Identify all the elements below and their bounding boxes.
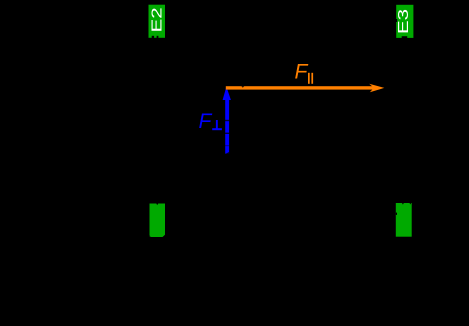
electrode plate E2 (top left green box) (148, 5, 165, 38)
svg-text:F: F (199, 110, 213, 133)
diagonal cut at blue arrow tail (225, 152, 229, 154)
dash gap on blue shaft 1 (225, 120, 229, 121)
notch on E3 left edge (396, 19, 397, 22)
svg-text:F: F (295, 60, 309, 83)
force arrow F_par (orange, horizontal) (226, 84, 384, 93)
label F_par (orange) (295, 60, 314, 84)
bottom left green electrode segment (150, 204, 166, 238)
svg-text:E3: E3 (395, 9, 412, 34)
dash gap on blue shaft 2 (225, 133, 229, 134)
notch on bottom-right box top edge 2 (410, 203, 412, 205)
notch on bottom-left box top edge (156, 204, 158, 206)
force arrow F_perp (blue, vertical) (223, 87, 231, 154)
notch on bottom-left box corner (163, 235, 166, 237)
notch on E2 bottom edge (152, 36, 154, 38)
dash gap on blue shaft 3 (225, 145, 229, 146)
bottom right green electrode segment (396, 203, 412, 237)
svg-text:E2: E2 (148, 7, 165, 32)
notch on orange arrow top edge (241, 86, 244, 87)
notch on E3 bottom edge (402, 36, 408, 38)
notch on bottom-right box left edge (396, 213, 397, 215)
notch on E2 bottom edge 2 (157, 36, 159, 38)
label F_perp (blue) (199, 110, 222, 133)
notch on bottom-left box bottom-left corner (150, 235, 151, 237)
notch on bottom-right box top edge 1 (402, 203, 404, 205)
electrode plate E3 (top right green box) (395, 5, 413, 38)
